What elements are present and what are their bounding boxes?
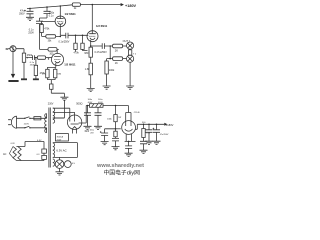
svg-text:6.3V: 6.3V xyxy=(11,143,16,145)
jack J3 input xyxy=(10,46,16,52)
resistor R9 between jacks xyxy=(129,48,131,51)
capacitor C12 xyxy=(153,124,160,141)
wire grid V1a xyxy=(42,21,56,24)
ground xyxy=(140,150,148,153)
tube V2a 1/2 6N11 xyxy=(51,53,63,65)
wire heater leads xyxy=(125,134,136,142)
resistor R21 xyxy=(143,124,145,128)
resistor R12 xyxy=(46,69,49,78)
wire divider feed xyxy=(39,24,41,50)
svg-text:6.3V: 6.3V xyxy=(37,140,42,142)
svg-text:500Ω: 500Ω xyxy=(76,102,82,106)
wire filter rail xyxy=(86,105,128,107)
capacitor C6 bypass xyxy=(50,84,53,89)
resistor R5a xyxy=(75,35,77,43)
capacitor C7 100u/400V xyxy=(84,106,91,127)
resistor R2 xyxy=(46,35,56,38)
jack J1 xyxy=(127,42,134,49)
fuse F1 xyxy=(34,117,41,120)
resistor R10 xyxy=(113,57,123,61)
svg-text:+180V: +180V xyxy=(166,123,174,127)
switch S1b xyxy=(17,126,47,132)
node +180V arrow xyxy=(121,3,124,6)
svg-text:100k: 100k xyxy=(109,69,115,72)
svg-text:680: 680 xyxy=(58,73,62,75)
wire HV taps xyxy=(53,108,70,117)
svg-text:1K: 1K xyxy=(115,62,118,65)
wire cathode xyxy=(47,67,55,69)
svg-text:250V: 250V xyxy=(28,32,34,35)
node cathode out xyxy=(90,45,92,47)
svg-text:AC: AC xyxy=(3,153,7,156)
node out junction xyxy=(109,45,111,47)
resistor R17 xyxy=(43,142,45,150)
capacitor C5 0.47u output coupling xyxy=(91,43,111,49)
resistor R1 (rail series) xyxy=(72,3,80,6)
potentiometer RP1 450k xyxy=(22,53,25,62)
resistor R19 grid stopper xyxy=(37,56,45,59)
switch S1 xyxy=(17,117,34,119)
fuse note box xyxy=(55,134,68,141)
resistor R11 100k load xyxy=(106,59,108,61)
svg-text:T 2: T 2 xyxy=(133,53,137,55)
svg-text:1/2 6N11: 1/2 6N11 xyxy=(65,12,77,16)
ground xyxy=(103,86,111,89)
svg-text:470k: 470k xyxy=(74,51,80,54)
capacitor C14 input coupling xyxy=(29,55,38,60)
ground xyxy=(126,86,134,89)
svg-text:4.7k: 4.7k xyxy=(146,133,150,135)
resistor R6 cathode xyxy=(90,46,92,47)
transformer secondary 6.3V windings xyxy=(53,143,55,157)
svg-text:4.5: 4.5 xyxy=(72,163,76,165)
svg-text:30k: 30k xyxy=(48,41,53,43)
svg-text:中国电子diy网: 中国电子diy网 xyxy=(104,168,141,176)
capacitor C11 xyxy=(146,124,153,141)
svg-text:0.1u: 0.1u xyxy=(49,14,54,17)
wire heater loop xyxy=(16,142,44,161)
svg-text:www.sharediy.net: www.sharediy.net xyxy=(96,163,144,169)
ground xyxy=(56,168,64,175)
tube V3 6Z4 rectifier xyxy=(67,115,81,129)
svg-text:25V: 25V xyxy=(90,132,94,134)
plug AC input xyxy=(11,116,16,128)
resistor R18 xyxy=(43,153,45,155)
resistor R7 xyxy=(89,63,92,75)
svg-text:230V: 230V xyxy=(48,103,54,106)
svg-text:100u: 100u xyxy=(90,130,94,132)
capacitor C2 250p xyxy=(40,7,51,21)
svg-text:6.3: 6.3 xyxy=(37,154,41,156)
svg-text:+180V: +180V xyxy=(125,4,137,8)
resistor R14 500 ohm filter xyxy=(90,104,104,108)
svg-text:250V: 250V xyxy=(57,139,62,141)
ground xyxy=(112,147,120,150)
svg-text:350V: 350V xyxy=(19,12,25,15)
svg-text:0.47u/250V: 0.47u/250V xyxy=(95,51,108,54)
svg-text:450k: 450k xyxy=(27,54,33,57)
svg-text:100k: 100k xyxy=(107,118,113,120)
svg-text:47u/250V: 47u/250V xyxy=(160,134,169,136)
svg-text:300mA: 300mA xyxy=(57,135,64,138)
wire B+ top rail right xyxy=(80,4,120,6)
svg-text:1W: 1W xyxy=(118,117,121,119)
jack J2 xyxy=(127,55,134,62)
tube V1a 1/2 6N11 xyxy=(59,6,61,16)
wire to second jack xyxy=(107,46,113,59)
capacitor C4 coupling xyxy=(60,33,88,39)
resistor R17b xyxy=(114,131,117,137)
svg-text:IN: IN xyxy=(6,47,9,51)
resistor R20 grid leak 470k xyxy=(35,58,37,66)
capacitor C8 100u/400V xyxy=(95,107,102,126)
ground xyxy=(26,17,34,20)
svg-text:2k: 2k xyxy=(74,7,77,10)
resistor R4 470k xyxy=(40,25,43,33)
capacitor C1 47u/350V xyxy=(27,8,34,17)
svg-text:220V: 220V xyxy=(24,124,30,126)
ground xyxy=(101,142,109,145)
tube V4 regulator xyxy=(127,106,129,113)
capacitor C13 base bypass xyxy=(101,129,115,142)
resistor R5b grid leak xyxy=(82,35,84,43)
node xyxy=(75,35,77,37)
svg-text:1/2 6N11: 1/2 6N11 xyxy=(64,62,76,66)
wire cathode out to +180V rail xyxy=(136,124,165,129)
capacitor C15 xyxy=(140,138,147,151)
capacitor C3 0.1u xyxy=(36,21,43,23)
resistor R15 base xyxy=(115,106,117,115)
svg-text:400V: 400V xyxy=(88,102,93,104)
svg-text:470k: 470k xyxy=(44,28,50,31)
svg-text:1/2 6N11: 1/2 6N11 xyxy=(96,24,108,28)
svg-text:2K: 2K xyxy=(115,48,118,52)
svg-text:0.1u/250V: 0.1u/250V xyxy=(59,41,70,44)
node rail junctions xyxy=(29,8,31,10)
svg-text:400V: 400V xyxy=(98,102,103,104)
transformer secondary HV xyxy=(53,108,55,123)
capacitor C10 emitter xyxy=(125,141,132,153)
transformer T1 primary xyxy=(45,114,47,133)
wire B+ top rail left xyxy=(27,5,72,9)
wire base xyxy=(116,128,121,130)
capacitor C9 xyxy=(112,138,119,146)
svg-text:680: 680 xyxy=(84,53,89,55)
transformer core xyxy=(49,108,50,168)
wire 6.3V loop xyxy=(53,143,78,158)
ground input xyxy=(12,52,14,74)
ground xyxy=(60,97,68,100)
ground xyxy=(87,88,95,91)
ground xyxy=(21,78,27,80)
tube V1b 1/2 6N11 xyxy=(91,5,93,31)
svg-text:6.3V AC: 6.3V AC xyxy=(56,149,66,153)
resistor R13 xyxy=(54,69,57,78)
svg-text:C1140: C1140 xyxy=(134,112,141,114)
lamp pilot xyxy=(59,157,61,159)
wire xyxy=(16,49,24,53)
resistor R3 xyxy=(48,48,57,52)
svg-text:300: 300 xyxy=(142,122,146,124)
resistor R8 2K xyxy=(110,45,112,47)
